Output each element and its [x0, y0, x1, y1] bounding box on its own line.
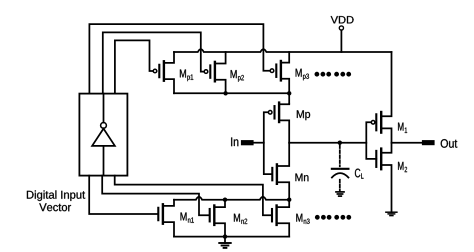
- wire to Out: [392, 142, 422, 144]
- junction dot Mn2 drain: [223, 198, 227, 202]
- wire rail to Mp source: [288, 93, 290, 103]
- junction dot Mn source node: [287, 198, 291, 202]
- transistor M2: [376, 143, 391, 213]
- junction dot Mp2 drain: [223, 91, 227, 95]
- transistor Mn3: [272, 200, 289, 237]
- transistor Mn1: [158, 200, 174, 237]
- label Mp3: [296, 69, 309, 81]
- label Mp1: [180, 69, 193, 81]
- wire bit5 to Mn2 gate: [102, 176, 209, 216]
- label Mn: [295, 174, 308, 182]
- inverter symbol inside box: [92, 94, 115, 176]
- wire gate riser Mp/Mn: [264, 112, 272, 174]
- label Vector: [39, 203, 71, 211]
- wire bit2 to Mp2 gate: [103, 32, 204, 93]
- label Mn3: [296, 214, 309, 224]
- wire output node to M1/M2 gates: [289, 142, 366, 144]
- VDD terminal: [339, 26, 343, 52]
- label Mp2: [231, 70, 244, 82]
- Out terminal bar: [422, 140, 435, 145]
- wire bit1 to Mp3 gate: [89, 24, 270, 94]
- transistor Mp3: [270, 52, 289, 93]
- wire In to gates: [254, 142, 264, 144]
- wire bit3 to Mp1 gate: [115, 40, 153, 93]
- junction dot CL tap: [338, 141, 342, 145]
- digital input vector box: [79, 94, 127, 176]
- label Out: [441, 139, 458, 148]
- label VDD: [331, 16, 354, 23]
- transistor Mp: [268, 103, 289, 143]
- label M2: [398, 162, 407, 172]
- In terminal bar: [241, 140, 254, 145]
- NMOS bank source rail: [174, 197, 289, 200]
- transistor Mn: [272, 143, 289, 200]
- dots after Mn3: [315, 215, 351, 220]
- transistor Mn2: [210, 200, 225, 237]
- label CL: [355, 169, 364, 179]
- PMOS bank source rail: [174, 92, 289, 94]
- transistor Mp1: [153, 52, 174, 93]
- label In: [231, 137, 238, 146]
- wire M1 M2 gate riser: [366, 122, 376, 159]
- wire bit6 to Mn3 gate: [115, 176, 271, 216]
- transistor Mp2: [204, 52, 225, 93]
- ground M2: [386, 212, 397, 215]
- VDD rail: [174, 49, 392, 52]
- transistor M1: [371, 52, 391, 143]
- label Mn1: [181, 212, 194, 222]
- wire bit4 to Mn1 gate: [89, 176, 157, 214]
- ground main: [219, 237, 231, 248]
- dots after Mp3: [315, 72, 352, 77]
- label Mp: [297, 110, 310, 120]
- label Digital Input: [27, 190, 85, 201]
- ground CL: [336, 192, 344, 196]
- capacitor CL: [332, 145, 349, 191]
- label Mn2: [234, 214, 247, 224]
- label M1: [398, 123, 407, 133]
- junction dot Mp source node: [287, 91, 291, 95]
- junction dot ground tap: [223, 234, 227, 238]
- ground rail: [174, 236, 289, 238]
